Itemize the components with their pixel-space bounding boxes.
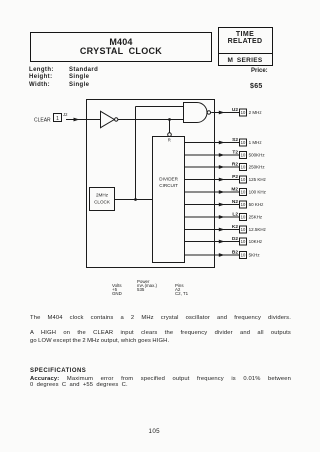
svg-text:P2: P2 [232, 174, 238, 180]
svg-text:T2: T2 [232, 150, 238, 156]
svg-text:J2: J2 [63, 112, 68, 117]
svg-text:10: 10 [241, 215, 246, 220]
svg-text:K2: K2 [232, 224, 238, 230]
svg-text:10: 10 [241, 177, 246, 182]
svg-text:R: R [168, 137, 171, 142]
svg-text:D2: D2 [232, 236, 238, 242]
svg-text:2 MHz: 2 MHz [249, 110, 263, 115]
svg-text:25KHz: 25KHz [249, 215, 263, 220]
svg-text:10: 10 [241, 110, 246, 115]
svg-text:50 KHz: 50 KHz [249, 202, 265, 207]
svg-text:12.5KHz: 12.5KHz [249, 227, 267, 232]
svg-text:10KHz: 10KHz [249, 239, 263, 244]
svg-text:1: 1 [56, 116, 59, 122]
svg-text:500KHz: 500KHz [249, 153, 266, 158]
svg-text:DIVIDER: DIVIDER [159, 177, 178, 182]
svg-text:10: 10 [241, 190, 246, 195]
svg-text:CLEAR: CLEAR [34, 117, 51, 123]
svg-text:R2: R2 [232, 162, 238, 168]
svg-text:125 KHz: 125 KHz [249, 177, 267, 182]
svg-text:L2: L2 [232, 212, 238, 218]
svg-text:10: 10 [241, 140, 246, 145]
svg-text:10: 10 [241, 253, 246, 258]
svg-text:U2: U2 [232, 107, 238, 113]
svg-text:10: 10 [241, 239, 246, 244]
svg-text:B2: B2 [232, 250, 238, 256]
svg-text:10: 10 [241, 165, 246, 170]
svg-text:10: 10 [241, 153, 246, 158]
svg-text:S2: S2 [232, 137, 238, 143]
svg-text:1 MHz: 1 MHz [249, 140, 263, 145]
svg-text:100 KHz: 100 KHz [249, 190, 267, 195]
svg-text:250KHz: 250KHz [249, 165, 266, 170]
svg-text:N2: N2 [232, 199, 238, 205]
svg-text:CIRCUIT: CIRCUIT [159, 183, 178, 188]
svg-text:10: 10 [241, 227, 246, 232]
svg-text:CLOCK: CLOCK [94, 200, 111, 205]
svg-text:M2: M2 [231, 187, 238, 193]
svg-text:10: 10 [241, 202, 246, 207]
svg-text:2MHz: 2MHz [96, 192, 109, 197]
svg-text:5KHz: 5KHz [249, 253, 261, 258]
